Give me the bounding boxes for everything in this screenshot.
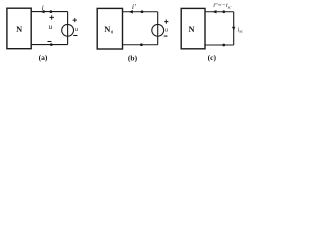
- svg-text:(b): (b): [128, 53, 138, 62]
- short-circuit wire right (c): [233, 12, 235, 45]
- node dot top (b): [141, 10, 144, 13]
- node dot top (c): [222, 10, 225, 13]
- network box N0 (circuit b): [97, 8, 122, 49]
- voltage source U1 circle (a): [62, 24, 74, 36]
- svg-text:i″=−isc: i″=−isc: [213, 2, 231, 9]
- svg-text:isc: isc: [238, 26, 244, 33]
- current arrow i (a): [40, 10, 44, 14]
- svg-text:u: u: [49, 22, 53, 31]
- node dot bottom (b): [140, 43, 143, 46]
- wire top (a): [31, 11, 67, 13]
- current arrow i' (b): [129, 10, 133, 14]
- voltage source stem (b): [157, 12, 159, 45]
- port label minus (a): [48, 41, 52, 43]
- wire bottom (a): [31, 44, 67, 46]
- source label + (a): [73, 18, 77, 22]
- source label + (b): [164, 20, 168, 24]
- svg-text:(c): (c): [208, 53, 217, 62]
- svg-text:(a): (a): [39, 53, 48, 62]
- svg-text:N: N: [104, 25, 110, 34]
- svg-text:i: i: [42, 3, 44, 12]
- svg-text:N: N: [188, 25, 194, 34]
- svg-text:i′: i′: [132, 2, 136, 11]
- current arrow isc down (c): [232, 27, 235, 31]
- svg-text:0: 0: [111, 31, 113, 35]
- svg-text:N: N: [16, 25, 22, 34]
- wire bottom (c): [205, 44, 234, 46]
- svg-text:u: u: [165, 26, 168, 33]
- source label minus (b): [164, 35, 168, 37]
- node dot top (a): [50, 10, 53, 13]
- network box N (circuit c): [181, 8, 205, 48]
- network box N (circuit a): [7, 8, 31, 49]
- node dot bottom (c): [222, 44, 225, 47]
- wire top (c): [205, 11, 234, 13]
- wire bottom (b): [123, 44, 158, 46]
- port label + (a): [50, 15, 54, 19]
- wire top (b): [123, 11, 158, 13]
- node dot bottom (a): [50, 43, 53, 46]
- svg-text:u: u: [75, 26, 78, 33]
- voltage source stem (a): [67, 12, 69, 45]
- current arrow i'' (c): [212, 10, 216, 14]
- voltage source U circle (b): [152, 24, 164, 36]
- source label minus (a): [73, 35, 77, 37]
